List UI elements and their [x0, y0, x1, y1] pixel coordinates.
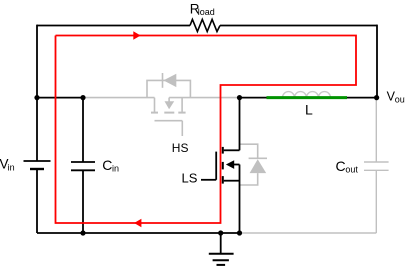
resistor Rload	[190, 19, 220, 31]
svg-text:in: in	[8, 162, 15, 172]
node: Vout junction	[374, 95, 379, 100]
red arrow left (bottom)	[134, 219, 141, 227]
svg-text:out: out	[345, 164, 358, 174]
wire: switch node to Vout (under inductor)	[240, 97, 377, 99]
wire: mid rail black from Vin to Cin	[37, 97, 83, 99]
wire: mid rail gray from Cin node to HS drain	[83, 97, 155, 99]
wire: top rail left of Rload	[37, 25, 190, 27]
wire: HS source-side gray conductor to switch node	[169, 97, 238, 99]
node: ground junction	[218, 230, 223, 235]
inductor L green segment	[267, 96, 348, 99]
transistor Q1 HS (gray, disabled)	[151, 98, 186, 136]
transistor Q2 LS (black, active)	[201, 98, 240, 233]
wire: left vertical upper (to battery)	[36, 25, 38, 161]
battery Vin	[24, 160, 51, 162]
node: Cin top junction	[80, 95, 85, 100]
wire: right vertical to Vout	[376, 25, 378, 98]
svg-text:HS: HS	[172, 141, 189, 155]
svg-text:in: in	[112, 163, 119, 173]
wire: top rail right of Rload	[220, 25, 377, 27]
node: Cin bottom junction	[80, 230, 85, 235]
svg-text:C: C	[336, 158, 346, 174]
wire: left vertical lower	[36, 169, 38, 233]
wire: gray bottom return from ground node to Cout	[240, 232, 377, 234]
node: Vin to mid rail junction	[34, 95, 39, 100]
wire: bottom rail black	[37, 232, 240, 234]
red arrow right (top)	[133, 31, 140, 40]
svg-text:load: load	[198, 7, 215, 17]
wire: red current loop	[56, 36, 357, 224]
capacitor Cout (gray)	[364, 98, 389, 233]
svg-text:C: C	[102, 157, 112, 173]
ground	[209, 233, 234, 265]
svg-text:out: out	[395, 94, 405, 104]
inductor L coil humps	[283, 92, 331, 98]
node: switch node junction	[237, 95, 242, 100]
svg-text:L: L	[305, 101, 313, 117]
diode D2 LS body diode (gray)	[240, 144, 268, 185]
diode D1 HS body diode (gray)	[147, 73, 190, 98]
node: LS source to bottom rail junction	[237, 230, 242, 235]
svg-text:LS: LS	[182, 171, 198, 186]
capacitor Cin	[82, 98, 84, 162]
